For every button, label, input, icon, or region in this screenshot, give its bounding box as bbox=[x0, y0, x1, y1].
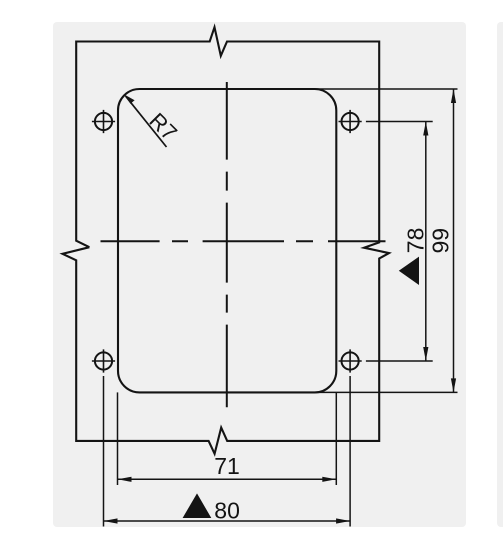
extension line bottom holes to 78 dim bbox=[366, 360, 433, 362]
dimension line 78 bbox=[425, 122, 427, 362]
horizontal centerline bbox=[101, 240, 386, 242]
hole bottom-right bbox=[339, 349, 362, 372]
svg-text:99: 99 bbox=[428, 228, 454, 254]
dimension line 80 bbox=[104, 520, 351, 522]
extension line cutout left for 71 dim bbox=[117, 392, 119, 485]
vertical centerline bbox=[226, 82, 228, 407]
dimension line 99 bbox=[453, 89, 455, 392]
cutout rounded rectangle bbox=[118, 89, 336, 392]
hole top-right bbox=[339, 110, 362, 133]
extension line top holes to 78 dim bbox=[366, 121, 433, 123]
extension line left holes for 80 dim bbox=[103, 376, 105, 527]
second gray sheet edge at right bbox=[497, 22, 503, 527]
hole bottom-left bbox=[92, 349, 115, 372]
R7 leader line bbox=[126, 96, 167, 147]
svg-text:80: 80 bbox=[214, 498, 240, 524]
svg-text:R7: R7 bbox=[144, 108, 182, 146]
svg-text:78: 78 bbox=[403, 228, 429, 254]
extension line cutout bottom to 99 dim bbox=[315, 391, 458, 393]
extension line right holes for 80 dim bbox=[349, 376, 351, 527]
panel outline with break symbols bbox=[63, 27, 390, 454]
triangle marker for 80 bbox=[183, 493, 212, 518]
hole top-left bbox=[92, 110, 115, 133]
dimension line 71 bbox=[118, 478, 337, 480]
svg-text:71: 71 bbox=[214, 453, 240, 479]
triangle marker for 78 (rotated) bbox=[399, 257, 419, 285]
gray drawing sheet background bbox=[53, 22, 466, 527]
extension line cutout right for 71 dim bbox=[335, 392, 337, 485]
extension line cutout top to 99 dim bbox=[315, 88, 458, 90]
R7 leader arrowhead bbox=[124, 95, 134, 104]
